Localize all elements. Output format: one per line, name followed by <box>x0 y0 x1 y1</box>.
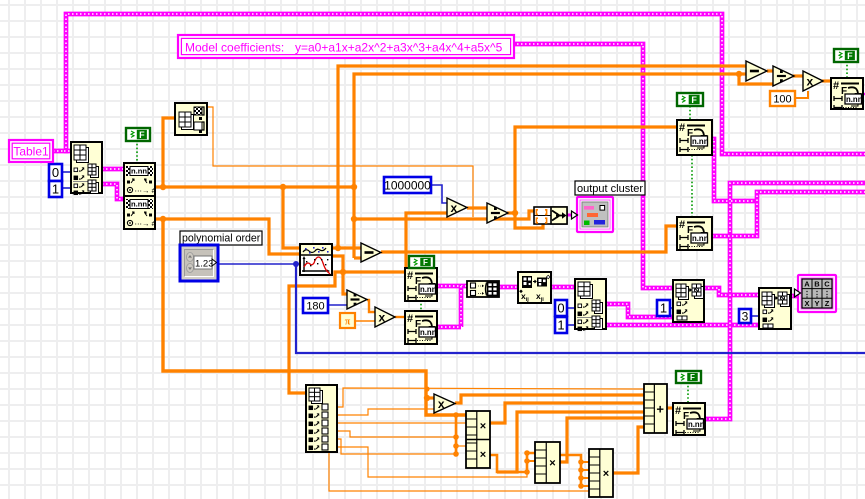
label: Model coefficients formula <box>178 35 514 58</box>
wire: 1000000 const to multiply2 (blue) <box>431 185 447 203</box>
const: boolean F 3 (right) <box>677 93 703 106</box>
svg-text:0: 0 <box>52 165 59 180</box>
svg-text:n.nn: n.nn <box>131 167 147 176</box>
op: subtract mid <box>361 243 381 262</box>
op: divide 180 <box>347 290 367 309</box>
wire: pi const to multiply3 <box>355 320 375 322</box>
control: polynomial order numeric (1.23) <box>180 245 218 281</box>
wire: string-to-number1 numeric out (main horizontal y=187) <box>155 185 354 188</box>
svg-text:⋮: ⋮ <box>823 290 831 299</box>
wire: coeffs branch to bottom index array <box>289 272 343 393</box>
svg-text:Z: Z <box>825 299 830 308</box>
svg-text:F: F <box>139 130 145 140</box>
svg-text:#: # <box>407 313 413 325</box>
wire: compound2 out up to plus <box>560 418 644 462</box>
svg-text:×: × <box>480 420 486 432</box>
svg-text:+: + <box>656 402 664 417</box>
wire: build-array to transpose (pink) <box>499 285 518 290</box>
label: output cluster <box>575 181 645 195</box>
wire: branch down to polyfit X input <box>283 187 300 248</box>
wire: branch y=219 to bundle input1 <box>354 211 534 219</box>
node: Number To Fractional String top-right final <box>831 78 863 109</box>
wire: branch up to Array Max&Min input <box>163 118 175 187</box>
wire: blue const 3 to node9 <box>751 315 759 317</box>
svg-text:π: π <box>345 317 351 328</box>
svg-text:⋮: ⋮ <box>803 290 811 299</box>
wire: compound3 out up to plus input6 <box>612 427 644 473</box>
const: 100 (orange) <box>770 91 795 106</box>
const: 1 (right) <box>657 300 670 316</box>
svg-text:#: # <box>675 405 681 417</box>
op: divide top-right <box>773 66 794 86</box>
wire: index array out row1 to string-to-number 2 <box>102 184 124 199</box>
node: Index Array bottom (coefficients) <box>306 385 337 452</box>
wire: number-to-string TR2 out to right edge <box>712 192 865 236</box>
wire: boolean F dotted greens <box>136 140 138 163</box>
node: compound multiply 1 (two sections) <box>466 411 490 468</box>
svg-text:Table1: Table1 <box>13 145 49 159</box>
const: pi (orange) <box>340 313 355 328</box>
svg-text:n.nn: n.nn <box>420 328 437 337</box>
wire: compound1 lower out to compound2 inputs <box>490 453 535 472</box>
wire: Array Max&Min output down to divide2 (thin) <box>207 107 473 217</box>
wire: nnn3 string out / nnn4 string out join <box>437 284 467 289</box>
const: 180 <box>303 298 328 313</box>
node: Fract/Exp String To Number 1 <box>124 163 155 196</box>
node: Number To Fractional String TR1 <box>677 120 712 155</box>
wire: polyfit best-fit out with junction up to top subtract <box>331 246 361 249</box>
const: 0 (mid-right) <box>555 300 567 316</box>
wire: index-array-str out2 to node9 bottom <box>606 323 759 328</box>
wire: blue const 1 to replace node <box>670 307 673 309</box>
const: 1 (left) <box>49 181 62 197</box>
svg-text:⋯: ⋯ <box>478 291 485 298</box>
svg-text:1000000: 1000000 <box>384 178 431 192</box>
wire: model-coefficients string to Replace Array node (pink) <box>513 44 673 288</box>
wire: multiply2 out to divide2 <box>467 206 487 209</box>
node: Replace Array Subset 1 <box>673 280 704 322</box>
svg-text:⋯→ #: ⋯→ # <box>135 186 157 195</box>
wire: long vertical pink right side with branches <box>705 183 865 419</box>
svg-text:1: 1 <box>557 318 564 333</box>
op: divide mid <box>487 203 508 223</box>
svg-text:y=a0+a1x+a2x^2+a3x^3+a4x^4+a5x: y=a0+a1x+a2x^2+a3x^3+a4x^4+a5x^5 <box>295 41 503 55</box>
wire: polynomial order control to polyfit + long blue line <box>218 263 300 265</box>
svg-text:F: F <box>423 258 428 267</box>
wire: number-to-string TR1 out down <box>712 139 731 201</box>
const: 3 (right) <box>739 309 751 323</box>
wire: node9 out to ABC table indicator <box>791 294 799 299</box>
node: Array Max & Min <box>175 103 207 135</box>
node: Index Array strings mid-right <box>575 279 606 329</box>
op: multiply pi <box>375 307 395 327</box>
svg-text:#: # <box>679 122 685 134</box>
node: Number To Fractional String TR2 <box>677 217 712 250</box>
const: boolean F 5 (bottom) <box>676 371 701 383</box>
node: compound add <box>644 384 667 433</box>
svg-text:n.nn: n.nn <box>688 420 705 429</box>
wire: Table1 string-array to top-right edge (pink coil) <box>53 14 865 154</box>
wire: polyfit coeffs out - junction tree <box>331 256 347 294</box>
svg-text:A: A <box>804 280 810 289</box>
svg-text:⋯: ⋯ <box>478 283 485 290</box>
wire: subtract2 out to TR2 number-to-string <box>381 226 677 252</box>
svg-text:n.nn: n.nn <box>846 95 863 104</box>
wire: 100 const to multiply1 lower <box>794 91 808 98</box>
wire: V2 vertical x=353 top to right subtract <box>354 74 746 258</box>
svg-text:x: x <box>807 75 814 89</box>
svg-text:#: # <box>407 270 413 282</box>
wire: final number-to-string out at right edge (pink) <box>861 90 865 98</box>
svg-text:X: X <box>804 299 809 308</box>
node: General Polynomial Fit VI <box>300 244 332 275</box>
svg-text:#: # <box>833 80 839 92</box>
svg-text:×: × <box>549 458 555 470</box>
svg-text:F: F <box>690 373 695 382</box>
wire: blue consts 0/1 to index array <box>62 171 71 173</box>
svg-text:F: F <box>691 95 697 105</box>
svg-text:n.nn: n.nn <box>692 137 709 146</box>
wire: branch down left long to bottom multiply chain <box>163 219 466 415</box>
wire: compound2 area to compound3 inputs <box>560 455 581 486</box>
svg-text:B: B <box>814 280 820 289</box>
wire: multiply1 out to final number-to-string <box>822 79 831 82</box>
wire: transpose to index-array-str (pink) <box>551 285 575 290</box>
svg-text:x: x <box>451 201 458 215</box>
node: Spreadsheet String To Array <box>467 281 499 297</box>
node: Number To Fractional String 2 (rad) <box>405 311 437 344</box>
wire: bottom fan-out from index array (thin orange) <box>337 388 644 407</box>
node: Number To Fractional String 1 (deg) <box>405 268 437 301</box>
svg-text:polynomial order: polynomial order <box>182 233 261 245</box>
svg-text:×: × <box>603 468 609 480</box>
wire: divide2 out branches <box>507 211 515 214</box>
wire: sub1 lower-input branch to div1 <box>736 71 742 77</box>
const: 0 (left) <box>49 164 62 181</box>
svg-text:Model coefficients:: Model coefficients: <box>185 41 284 55</box>
svg-text:n.nn: n.nn <box>131 200 147 209</box>
node: Bundle <box>534 207 567 224</box>
node: Number To Fractional String bottom <box>673 403 705 435</box>
svg-text:100: 100 <box>773 94 791 106</box>
wire: compound1 upper out to plus <box>490 403 644 423</box>
wire: compound1 lower area up to plus input4 <box>497 412 644 472</box>
op: subtract top-right <box>746 61 767 81</box>
svg-text:C: C <box>824 280 830 289</box>
wire: blue consts 0/1 to index-array-str <box>567 307 575 309</box>
svg-text:180: 180 <box>306 300 324 312</box>
wire: bundle output cluster dashed pink <box>567 214 578 217</box>
wire: index array out row0 to string-to-number 1 <box>102 167 124 172</box>
node: Index Array U2 (Table rows) <box>71 142 102 193</box>
svg-text:×: × <box>480 449 486 461</box>
node: Transpose 2D Array <box>518 272 551 303</box>
wire: 180 const to divide3 (blue) <box>328 304 347 306</box>
svg-text:1: 1 <box>52 182 59 197</box>
op: multiply 1000000 <box>447 198 467 217</box>
label: Table1 (magenta free label) <box>9 140 53 162</box>
svg-text:#: # <box>679 219 685 231</box>
node: compound multiply 3 <box>589 449 613 497</box>
wire: index-array-str out1 to replace node <box>606 304 673 317</box>
svg-text:⋯→ #: ⋯→ # <box>135 219 157 228</box>
svg-text:Y: Y <box>814 299 819 308</box>
svg-text:x: x <box>438 397 445 411</box>
wire: string-to-number2 numeric out to polyfit Y input <box>155 219 300 254</box>
wire: divide1 out to multiply1 <box>793 74 803 77</box>
wire: V2 bottom into local subtract lower input <box>354 256 361 259</box>
const: 1000000 <box>384 177 431 193</box>
svg-text:1.23: 1.23 <box>195 259 214 270</box>
wire: multiply4 out to compound-plus <box>455 395 644 403</box>
wire: Table1 branch into Index Array <box>64 149 71 154</box>
svg-text:n.nn: n.nn <box>692 234 709 243</box>
const: boolean F 2 (mid) <box>409 256 434 268</box>
svg-text:0: 0 <box>557 301 564 316</box>
wire: compound1 input column x=456 <box>455 415 458 454</box>
svg-text:F: F <box>847 51 853 61</box>
const: boolean F 4 (top-right) <box>834 49 858 62</box>
label: polynomial order <box>180 231 262 245</box>
wire: replace-node out to node9 <box>704 288 759 295</box>
svg-text:1: 1 <box>660 301 667 316</box>
svg-text:output cluster: output cluster <box>577 183 643 195</box>
svg-text:x: x <box>379 311 386 325</box>
wire: multiply3 out to nnn4 <box>395 316 406 318</box>
op: multiply bottom <box>434 394 455 413</box>
wire: divide3 out to multiply3 <box>367 300 375 312</box>
svg-text:⋮: ⋮ <box>813 290 821 299</box>
wire: plus out to bottom number-to-string <box>667 406 673 409</box>
node: Replace Array Subset 2 / build table <box>759 288 791 329</box>
svg-text:n.nn: n.nn <box>420 285 437 294</box>
op: multiply top-right <box>803 71 823 91</box>
wire: subtract1 out to divide1 <box>767 69 773 72</box>
svg-text:3: 3 <box>742 309 749 323</box>
node: Fract/Exp String To Number 2 <box>124 196 155 229</box>
node: compound multiply 2 <box>535 442 560 483</box>
indicator: ABC XYZ table <box>795 275 837 312</box>
indicator: output cluster (cluster panel) <box>572 197 614 232</box>
const: boolean F 1 (left) <box>126 128 150 141</box>
const: 1 (mid-right) <box>555 317 567 333</box>
